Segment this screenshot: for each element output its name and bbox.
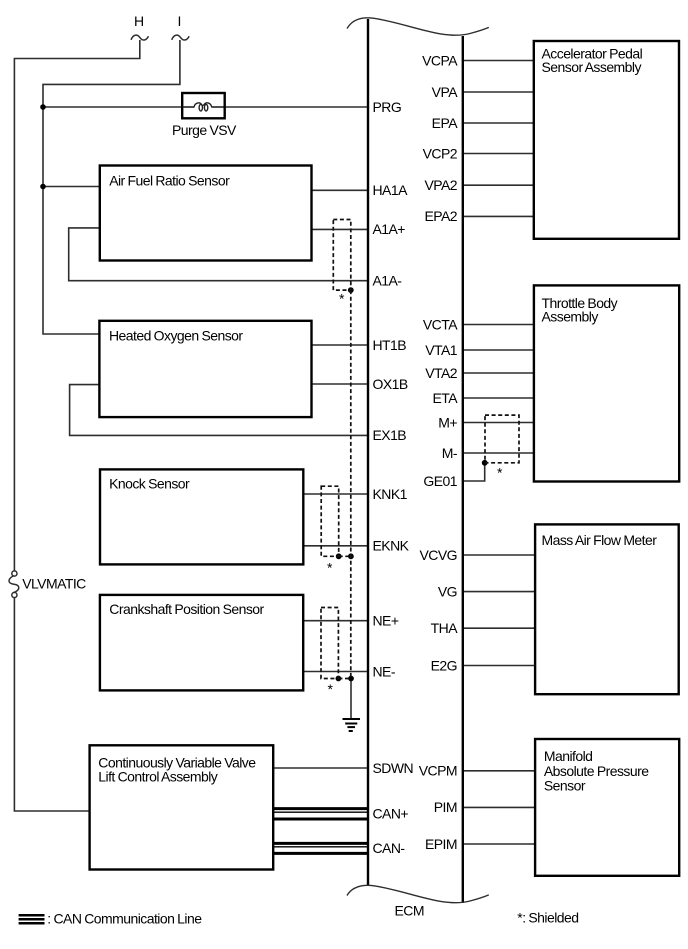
svg-text:VPA: VPA: [432, 84, 459, 100]
svg-text:VPA2: VPA2: [424, 177, 457, 193]
svg-text:NE-: NE-: [373, 663, 396, 679]
svg-text:NE+: NE+: [373, 613, 399, 629]
svg-text:CAN-: CAN-: [373, 840, 406, 856]
svg-text:ECM: ECM: [395, 903, 424, 919]
svg-text:E2G: E2G: [431, 657, 457, 673]
svg-text:GE01: GE01: [423, 473, 457, 489]
svg-text:VTA2: VTA2: [425, 365, 458, 381]
svg-text:EX1B: EX1B: [373, 427, 407, 443]
svg-text:THA: THA: [431, 620, 459, 636]
svg-text:Heated Oxygen Sensor: Heated Oxygen Sensor: [109, 327, 243, 343]
svg-text:I: I: [178, 13, 181, 29]
svg-text:EKNK: EKNK: [373, 538, 410, 554]
svg-text:OX1B: OX1B: [373, 376, 408, 392]
svg-text:Knock Sensor: Knock Sensor: [109, 475, 190, 491]
svg-text:VLVMATIC: VLVMATIC: [22, 576, 86, 592]
svg-text:Lift Control Assembly: Lift Control Assembly: [98, 769, 217, 785]
svg-text:Crankshaft Position Sensor: Crankshaft Position Sensor: [109, 601, 264, 617]
svg-text:Sensor Assembly: Sensor Assembly: [542, 59, 642, 75]
svg-text:VCTA: VCTA: [423, 316, 458, 332]
svg-text:VCPM: VCPM: [419, 763, 457, 779]
svg-text:PIM: PIM: [434, 799, 457, 815]
svg-text:EPIM: EPIM: [425, 836, 457, 852]
svg-text:*: Shielded: *: Shielded: [517, 910, 578, 926]
svg-text:SDWN: SDWN: [373, 760, 414, 776]
svg-text:VG: VG: [438, 583, 457, 599]
svg-text:A1A+: A1A+: [373, 221, 406, 237]
svg-text:Absolute Pressure: Absolute Pressure: [544, 763, 649, 779]
svg-text:M-: M-: [442, 445, 458, 461]
svg-text:M+: M+: [438, 414, 457, 430]
svg-text:KNK1: KNK1: [373, 486, 408, 502]
svg-text:CAN+: CAN+: [373, 806, 409, 822]
svg-text:Air Fuel Ratio Sensor: Air Fuel Ratio Sensor: [109, 172, 230, 188]
svg-text:VCVG: VCVG: [420, 547, 457, 563]
svg-text:ETA: ETA: [432, 390, 458, 406]
svg-text:HT1B: HT1B: [373, 337, 407, 353]
svg-text:Mass Air Flow Meter: Mass Air Flow Meter: [542, 532, 658, 548]
svg-text:VTA1: VTA1: [425, 342, 458, 358]
svg-text:PRG: PRG: [373, 99, 402, 115]
svg-text:Manifold: Manifold: [544, 748, 593, 764]
svg-text:EPA: EPA: [432, 115, 459, 131]
svg-text:EPA2: EPA2: [424, 208, 457, 224]
svg-text:Purge VSV: Purge VSV: [172, 122, 237, 138]
svg-text:VCPA: VCPA: [422, 52, 458, 68]
svg-text:A1A-: A1A-: [373, 273, 403, 289]
svg-text:HA1A: HA1A: [373, 182, 409, 198]
svg-text:: CAN Communication Line: : CAN Communication Line: [47, 910, 202, 926]
svg-text:H: H: [134, 13, 144, 29]
svg-text:Assembly: Assembly: [542, 309, 599, 325]
svg-text:VCP2: VCP2: [423, 145, 458, 161]
svg-text:Sensor: Sensor: [544, 777, 586, 793]
